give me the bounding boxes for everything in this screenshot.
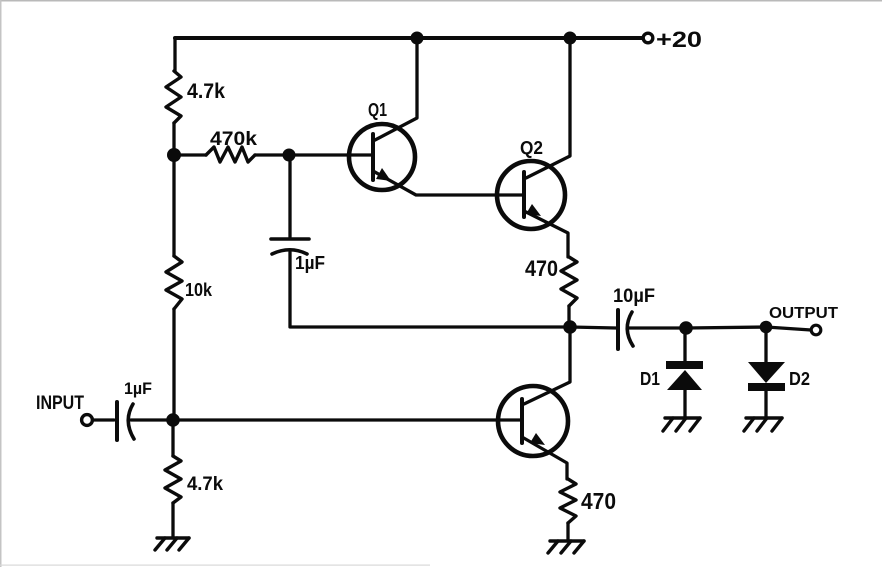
wire: R2 to node B xyxy=(255,153,289,156)
svg-text:470: 470 xyxy=(525,256,558,281)
resistor R4 470 xyxy=(561,257,577,306)
svg-text:+20: +20 xyxy=(656,27,702,52)
junction dot: D1 node xyxy=(679,321,693,335)
terminal: +20 supply xyxy=(643,33,653,43)
capacitor C3 1uF plate left xyxy=(115,402,119,440)
wire: node B down to C1 xyxy=(288,155,291,237)
svg-text:1µF: 1µF xyxy=(295,253,325,273)
wire: R3 to input node xyxy=(172,309,175,420)
junction dot: D2 node xyxy=(760,321,773,334)
resistor R3 10k xyxy=(166,256,182,309)
wire: node A to R3 xyxy=(172,155,175,256)
wire: node A to R2 xyxy=(174,153,206,156)
svg-text:10µF: 10µF xyxy=(613,286,655,307)
transistor Q3 xyxy=(498,386,568,456)
capacitor C2 10uF plate curved xyxy=(627,312,633,346)
wire: D1 to ground xyxy=(683,389,686,418)
junction dot: rail/Q2 collector xyxy=(564,32,577,45)
wire: output node down to Q3 collector xyxy=(524,327,570,404)
wire: D1 node down to D1 xyxy=(683,328,686,362)
svg-text:10k: 10k xyxy=(185,280,213,300)
wire: C3 to input node xyxy=(131,418,173,421)
wire: D2 node to OUTPUT terminal xyxy=(766,327,811,330)
transistor Q2 xyxy=(497,161,565,229)
svg-text:Q1: Q1 xyxy=(368,100,387,120)
svg-text:470k: 470k xyxy=(210,129,257,150)
svg-text:D1: D1 xyxy=(640,369,660,389)
wire: rail junction down to Q2 collector xyxy=(526,38,570,178)
wire: input node to Q3 base xyxy=(173,418,521,421)
terminal: OUTPUT xyxy=(811,325,821,335)
resistor R6 470 xyxy=(560,479,576,523)
capacitor C1 1uF plate curved xyxy=(272,250,307,254)
wire: Q3 emitter down to R6 xyxy=(522,437,567,479)
wire: C1 down and right to output node xyxy=(290,252,563,327)
wire: Q2 emitter down to R4 xyxy=(524,211,568,257)
resistor R5 4.7k xyxy=(165,456,181,503)
svg-text:470: 470 xyxy=(581,488,616,514)
diode D2 xyxy=(748,362,785,391)
capacitor C1 1uF plate top xyxy=(271,237,309,241)
resistor R1 4.7k xyxy=(166,71,181,123)
wire: R4 to output node xyxy=(567,306,570,327)
wire: R6 to ground xyxy=(566,523,569,541)
wire: R5 to ground xyxy=(171,503,174,538)
svg-text:4.7k: 4.7k xyxy=(187,80,225,103)
wire: Q1 emitter to Q2 base xyxy=(373,171,523,195)
capacitor C3 1uF plate curved xyxy=(128,404,134,439)
capacitor C2 10uF plate left xyxy=(616,310,620,349)
wire: left bus vertical top (rail to R1) xyxy=(173,38,176,71)
svg-text:D2: D2 xyxy=(789,369,810,389)
resistor R2 470k xyxy=(206,147,255,162)
svg-text:4.7k: 4.7k xyxy=(187,474,223,495)
junction dot: node A (R1/R2/R3) xyxy=(167,148,181,162)
ground: below D1 xyxy=(663,418,700,431)
junction dot: node B (R2/Q1 base/C1) xyxy=(283,149,296,162)
transistor Q1 xyxy=(349,124,415,190)
junction dot: input node (C3/R3/R5/Q3 base) xyxy=(166,413,180,427)
ground: below D2 xyxy=(744,418,782,431)
wire: D2 to ground xyxy=(764,391,767,418)
svg-text:OUTPUT: OUTPUT xyxy=(769,305,839,322)
wire: +20 supply rail xyxy=(175,36,642,40)
wire: input node to R5 xyxy=(171,420,174,456)
wire: D1 node to D2 node xyxy=(686,327,766,328)
ground: below R6 xyxy=(548,541,584,553)
svg-text:INPUT: INPUT xyxy=(36,393,84,414)
wire: rail junction down to Q1 collector xyxy=(375,38,417,140)
junction dot: output node (R4/Q3/C2/feedback) xyxy=(563,320,577,334)
terminal: INPUT xyxy=(82,415,93,426)
junction dot: rail/Q1 collector xyxy=(411,32,424,45)
wire: C2 to D1 node xyxy=(629,326,686,329)
svg-text:Q2: Q2 xyxy=(520,138,543,158)
wire: INPUT terminal to C3 xyxy=(93,418,114,421)
wire: D2 node down to D2 xyxy=(764,327,767,362)
diode D1 xyxy=(666,361,703,390)
wire: node B to Q1 base xyxy=(289,153,371,156)
ground: below R5 xyxy=(155,538,189,550)
wire: output node to C2 xyxy=(570,327,616,328)
svg-text:1µF: 1µF xyxy=(124,379,152,398)
wire: R1 to node A xyxy=(172,123,175,155)
